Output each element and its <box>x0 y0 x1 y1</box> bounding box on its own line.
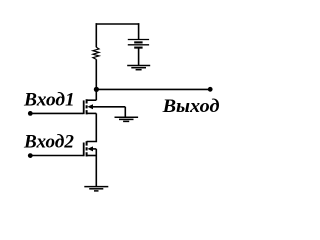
wire battery top lead <box>138 23 140 40</box>
wire output horizontal to right terminal <box>96 88 209 90</box>
wire top horizontal from resistor branch to battery <box>96 23 140 25</box>
wire input 2 from terminal to gate of M2 <box>30 155 83 157</box>
wire M2 source/body down to ground <box>95 149 97 187</box>
resistor R (load) <box>93 47 99 59</box>
terminal input 1 (dot) <box>28 111 33 116</box>
ground (M1 substrate) <box>115 117 139 121</box>
svg-text:Выход: Выход <box>162 96 220 117</box>
wire from node down to M1 drain <box>95 89 97 100</box>
wire M1 body to ground <box>124 107 126 117</box>
svg-text:Вход1: Вход1 <box>23 90 75 111</box>
transistor M2 (NMOS, bottom) <box>84 141 97 156</box>
wire battery bottom lead to ground <box>138 49 140 66</box>
wire left vertical from top wire down to resistor <box>95 23 97 47</box>
wire from resistor bottom down to output node <box>95 59 97 89</box>
terminal output (dot) <box>208 87 213 92</box>
ground (below battery) <box>127 66 150 70</box>
svg-text:Вход2: Вход2 <box>23 132 74 153</box>
wire input 1 from terminal to gate of M1 <box>30 112 83 114</box>
wire M1 source down to M2 drain <box>87 113 97 141</box>
node A (output junction dot) <box>94 87 99 92</box>
ground (bottom, source of M2) <box>84 187 108 191</box>
battery V (power source) <box>128 40 149 48</box>
terminal input 2 (dot) <box>28 153 33 158</box>
transistor M1 (NMOS, top) <box>84 99 126 114</box>
